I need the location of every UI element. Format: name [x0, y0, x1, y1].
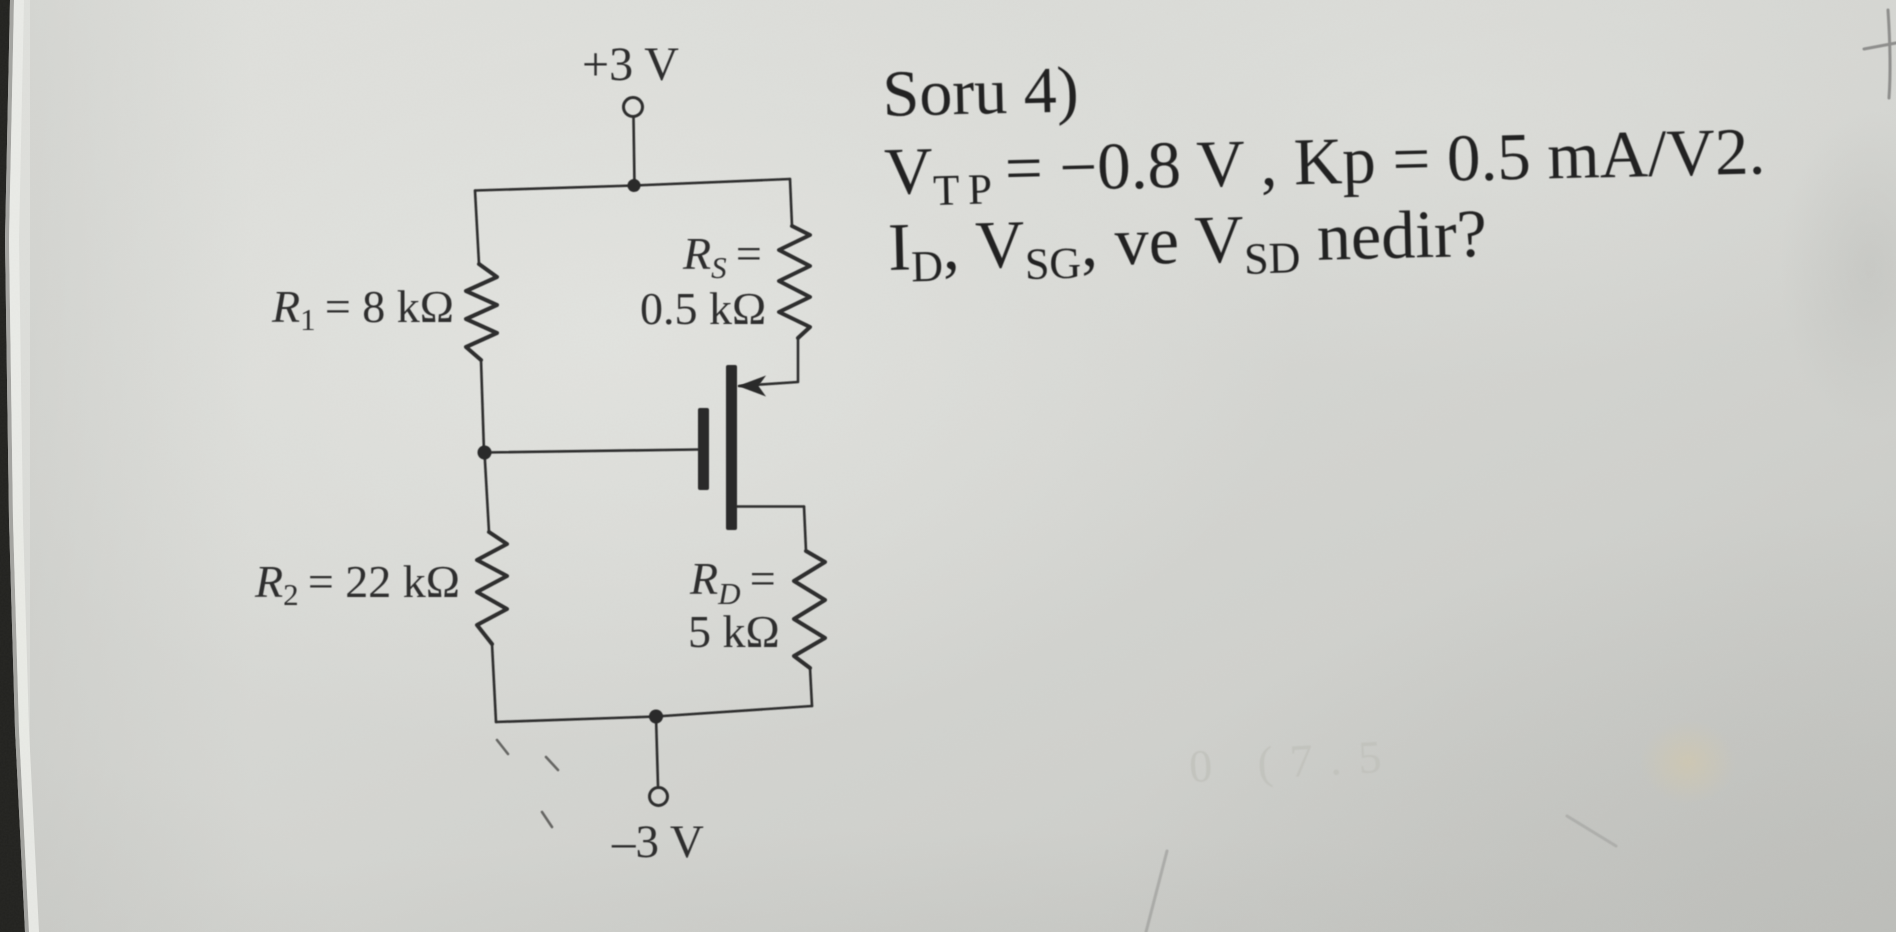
- pencil tick 1: [497, 740, 508, 754]
- wire: drain lead vertical down to RD: [804, 507, 806, 552]
- +3V supply terminal circle: [624, 98, 643, 117]
- resistor R2 zigzag: [477, 532, 507, 644]
- node A: gate/divider junction dot: [478, 446, 492, 460]
- wire: bottom rail left half: [496, 717, 656, 723]
- faint crease line bottom: [1146, 851, 1167, 932]
- svg-text:+3 V: +3 V: [582, 38, 679, 91]
- wire: R2 bottom to bottom rail: [492, 644, 496, 722]
- transistor Q1 source arrowhead (PMOS): [738, 376, 766, 397]
- pen mark top right corner: [1888, 10, 1890, 98]
- resistor RD zigzag: [794, 551, 825, 668]
- resistor R1 zigzag: [466, 264, 497, 360]
- svg-text:5 kΩ: 5 kΩ: [688, 606, 780, 657]
- transistor Q1 channel bar: [726, 365, 737, 530]
- wire: gate lead from node A: [485, 450, 699, 453]
- wire: bottom node to -3V terminal: [656, 717, 658, 787]
- node: bottom junction dot: [649, 710, 663, 724]
- svg-text:R1 = 8 kΩ: R1 = 8 kΩ: [271, 281, 454, 337]
- wire: RS bottom to source corner: [797, 338, 800, 381]
- wire: left rail between R1 and node A: [481, 360, 484, 452]
- wire: top rail left half: [475, 186, 634, 191]
- wire: right rail top (to RS): [790, 179, 792, 226]
- wire: left rail upper segment: [475, 191, 479, 265]
- svg-text:Soru 4): Soru 4): [882, 53, 1080, 131]
- dark photo edge at left: [0, 0, 25, 932]
- pencil tick 3: [542, 812, 552, 827]
- wire: left rail node A to R2: [485, 453, 490, 533]
- transistor Q1 gate bar: [698, 408, 709, 490]
- wire: bottom rail right half: [656, 706, 812, 717]
- wire: RD bottom to bottom rail: [810, 668, 812, 706]
- svg-text:–3 V: –3 V: [611, 816, 704, 868]
- ghost handwriting: [1188, 730, 1400, 792]
- wire: source lead horizontal into transistor: [739, 382, 798, 386]
- pencil tick 2: [546, 757, 558, 770]
- node: top junction dot: [628, 179, 641, 192]
- wire: terminal stem to top node: [634, 118, 635, 186]
- svg-text:0.5 kΩ: 0.5 kΩ: [640, 283, 766, 334]
- -3V supply terminal circle: [650, 788, 668, 806]
- resistor RS zigzag: [779, 226, 810, 338]
- wire: top rail right half: [634, 179, 790, 186]
- wire: drain lead horizontal: [737, 505, 804, 508]
